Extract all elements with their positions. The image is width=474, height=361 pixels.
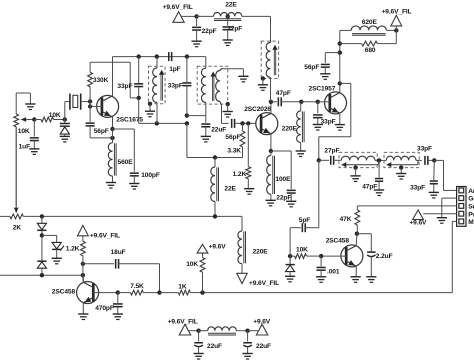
label 22uF bbox=[207, 343, 222, 350]
junction bbox=[432, 158, 436, 162]
tuning arrow bbox=[386, 161, 418, 168]
ground bbox=[223, 40, 233, 46]
svg-text:56pF: 56pF bbox=[225, 134, 240, 141]
svg-text:680: 680 bbox=[365, 47, 376, 54]
capacitor 5pF bbox=[290, 223, 319, 256]
label 47pF bbox=[276, 90, 291, 97]
wire bbox=[16, 93, 30, 114]
resistor 1K bbox=[160, 290, 203, 295]
capacitor 33pF bbox=[430, 160, 438, 192]
ground bbox=[29, 149, 39, 155]
ground bbox=[335, 125, 345, 131]
ground bbox=[25, 104, 35, 110]
label +9.6V_FIL bbox=[168, 319, 198, 326]
junction bbox=[88, 99, 92, 103]
svg-text:22uF: 22uF bbox=[211, 127, 226, 134]
svg-text:220E: 220E bbox=[253, 248, 269, 255]
power +9.6V_FIL inverted bbox=[237, 273, 247, 283]
label 22pF bbox=[276, 195, 291, 202]
svg-text:22uF: 22uF bbox=[207, 343, 222, 350]
capacitor 56pF bbox=[232, 119, 257, 128]
resistor 330K bbox=[88, 62, 93, 101]
transistor Q1 2SC1675 bbox=[97, 95, 119, 117]
svg-text:47K: 47K bbox=[340, 216, 352, 223]
ground bbox=[285, 276, 295, 282]
svg-text:22pF: 22pF bbox=[276, 195, 291, 202]
junction bbox=[81, 262, 85, 266]
power +9.6V_FIL bbox=[391, 15, 402, 30]
resistor 7.5K bbox=[118, 290, 160, 295]
svg-text:33pF: 33pF bbox=[417, 146, 432, 153]
svg-text:+9.6V_FIL: +9.6V_FIL bbox=[90, 232, 120, 239]
svg-text:22E: 22E bbox=[225, 2, 237, 9]
inductor 220E bbox=[297, 102, 304, 151]
label 330K bbox=[93, 77, 109, 84]
svg-text:560E: 560E bbox=[118, 159, 134, 166]
varactor D2 bbox=[286, 256, 295, 276]
node A junction bbox=[32, 117, 36, 121]
junction bbox=[269, 100, 273, 104]
wire secondary top bbox=[223, 69, 244, 77]
wire pin3 squelch bbox=[357, 205, 456, 207]
label 100pF bbox=[141, 172, 160, 179]
wire collector Q1 bbox=[112, 57, 114, 97]
wire bbox=[301, 101, 318, 103]
ground bbox=[244, 189, 254, 195]
label Ant bbox=[468, 188, 474, 195]
svg-text:2SC458: 2SC458 bbox=[326, 237, 350, 244]
ground bbox=[286, 201, 296, 207]
junction bbox=[213, 214, 217, 218]
ground bbox=[437, 218, 447, 224]
svg-text:56pF: 56pF bbox=[304, 64, 319, 71]
svg-text:330K: 330K bbox=[93, 77, 109, 84]
svg-text:47pF: 47pF bbox=[276, 90, 291, 97]
svg-text:18uF: 18uF bbox=[111, 249, 126, 256]
wire bbox=[113, 129, 135, 172]
label 680 bbox=[365, 47, 376, 54]
power +9.6V bbox=[248, 324, 268, 335]
label 5pF bbox=[299, 217, 310, 224]
junction bbox=[338, 81, 342, 85]
svg-text:22E: 22E bbox=[224, 186, 236, 193]
filter coil 1 shield bbox=[339, 152, 377, 167]
transformer T2 secondary bbox=[216, 69, 223, 105]
transistor Q3 2SC1957 bbox=[325, 92, 347, 114]
label 2SC458 bbox=[326, 237, 350, 244]
label 22pF behind cap bbox=[227, 26, 242, 33]
wire emitter Q3 bbox=[339, 113, 341, 125]
capacitor 27pF bbox=[319, 156, 342, 165]
wire bbox=[138, 98, 140, 124]
svg-text:2SC1675: 2SC1675 bbox=[116, 117, 143, 124]
capacitor 2.2uF bbox=[357, 234, 376, 277]
junction bbox=[81, 273, 85, 277]
svg-text:5pF: 5pF bbox=[299, 217, 310, 224]
resistor 1.2K bbox=[246, 123, 251, 188]
svg-text:10K: 10K bbox=[186, 261, 198, 268]
svg-text:Ant: Ant bbox=[468, 188, 474, 195]
shield ground junction bbox=[261, 76, 265, 80]
ground bbox=[266, 200, 276, 206]
crystal X1 bbox=[70, 94, 81, 110]
label 56pF bbox=[304, 64, 319, 71]
label 220E bbox=[253, 248, 269, 255]
svg-text:2SC1957: 2SC1957 bbox=[309, 85, 336, 92]
ground bbox=[351, 168, 361, 182]
svg-text:+9.6V: +9.6V bbox=[253, 319, 271, 326]
label 10K bbox=[18, 128, 30, 135]
diode D3 bbox=[37, 216, 46, 235]
filter coil 2 shield bbox=[384, 152, 419, 167]
svg-text:10K: 10K bbox=[49, 112, 61, 119]
wiper arrow into 2K bbox=[14, 127, 18, 213]
wire bus bbox=[187, 157, 243, 159]
svg-text:10K: 10K bbox=[296, 247, 308, 254]
inductor 620E bbox=[340, 26, 397, 35]
label 1.2K bbox=[233, 171, 247, 178]
capacitor 56pF bbox=[321, 53, 340, 74]
svg-text:2SC2026: 2SC2026 bbox=[244, 106, 271, 113]
capacitor 22pF bbox=[223, 16, 233, 40]
svg-text:+9.6V: +9.6V bbox=[209, 243, 227, 250]
label 10K bbox=[49, 112, 61, 119]
junction bbox=[200, 290, 204, 294]
capacitor 18uF bbox=[83, 259, 160, 293]
wire bus bbox=[139, 122, 187, 124]
label 1pF bbox=[169, 66, 180, 73]
junction bbox=[116, 290, 120, 294]
junction bbox=[194, 14, 198, 18]
label 1uF bbox=[19, 144, 30, 151]
tuning arrow T2 bbox=[211, 72, 216, 102]
label 1K bbox=[178, 283, 187, 290]
ground bbox=[351, 277, 361, 283]
svg-text:33pF: 33pF bbox=[410, 184, 425, 191]
power +9.6V_FIL bbox=[179, 324, 198, 335]
ground bbox=[429, 192, 439, 198]
junction bbox=[316, 100, 320, 104]
resistor 10K bbox=[34, 117, 65, 122]
wire bbox=[375, 159, 386, 161]
svg-text:1.2K: 1.2K bbox=[66, 245, 80, 252]
label 33pF bbox=[321, 118, 336, 125]
svg-text:7.5K: 7.5K bbox=[130, 283, 144, 290]
junction bbox=[137, 96, 141, 100]
ground bbox=[316, 277, 326, 283]
connector J1 bbox=[457, 187, 466, 227]
capacitor 56pF bbox=[86, 122, 113, 138]
wire pin2 ground bbox=[442, 198, 457, 218]
junction bbox=[288, 254, 292, 258]
svg-text:1K: 1K bbox=[178, 283, 187, 290]
wire collector run bbox=[319, 83, 351, 160]
zener D5 bbox=[42, 235, 64, 258]
junction bbox=[377, 158, 381, 162]
filter coil 1 bbox=[341, 156, 375, 160]
junction bbox=[299, 100, 303, 104]
wire base Q4 bbox=[321, 255, 346, 257]
svg-text:+9.6V_FIL: +9.6V_FIL bbox=[168, 319, 198, 326]
label 3.3K bbox=[227, 148, 241, 155]
oscillator coil bbox=[266, 16, 270, 101]
svg-text:1pF: 1pF bbox=[169, 66, 180, 73]
resistor 10K bbox=[200, 253, 205, 293]
resistor 2K pot bbox=[0, 214, 242, 219]
capacitor 22pF bbox=[192, 16, 201, 41]
label 2SC458 bbox=[52, 289, 76, 296]
wire base Q3 bbox=[318, 101, 330, 103]
power +9.6V_FIL bbox=[78, 225, 89, 235]
capacitor 22uF bbox=[201, 116, 210, 137]
label Sq bbox=[468, 204, 474, 211]
tuning arrow bbox=[341, 161, 379, 168]
svg-text:2.2uF: 2.2uF bbox=[376, 253, 393, 260]
ground bbox=[296, 151, 306, 157]
junction bbox=[319, 254, 323, 258]
junction bbox=[110, 136, 114, 140]
svg-text:2K: 2K bbox=[13, 225, 22, 232]
inductor 22E bbox=[197, 13, 271, 21]
svg-text:10K: 10K bbox=[18, 128, 30, 135]
label 47pF bbox=[362, 184, 377, 191]
capacitor .001 bbox=[317, 256, 326, 277]
transistor Q4 2SC458 bbox=[341, 245, 363, 267]
inductor 560E bbox=[108, 143, 116, 183]
resistor 10K bbox=[290, 254, 321, 259]
wire emitter Q2 bbox=[270, 134, 272, 151]
svg-text:33pF: 33pF bbox=[117, 83, 132, 90]
power +9.6V_FIL bbox=[173, 12, 197, 23]
wire bbox=[90, 62, 139, 98]
ground bbox=[374, 190, 384, 196]
oscillator coil shield bbox=[261, 41, 278, 78]
junction bbox=[338, 50, 342, 54]
label 10K bbox=[296, 247, 308, 254]
label Mic bbox=[468, 219, 474, 226]
junction bbox=[185, 121, 189, 125]
svg-text:100E: 100E bbox=[275, 176, 291, 183]
label 22uF bbox=[256, 343, 271, 350]
junction bbox=[40, 233, 44, 237]
wire bbox=[112, 129, 114, 143]
svg-text:Sq: Sq bbox=[468, 204, 474, 211]
ground bbox=[258, 79, 268, 91]
svg-text:3.3K: 3.3K bbox=[227, 148, 241, 155]
wire base Q5 bbox=[93, 292, 118, 294]
capacitor 47pF bbox=[271, 97, 301, 106]
label 47K bbox=[340, 216, 352, 223]
svg-text:+9.6V_FIL: +9.6V_FIL bbox=[249, 280, 279, 287]
ground bbox=[145, 104, 155, 117]
svg-text:470pF: 470pF bbox=[95, 305, 114, 312]
potentiometer 10K bbox=[14, 114, 35, 127]
inductor 22E bbox=[211, 158, 219, 217]
tuning arrow bbox=[272, 45, 277, 75]
junction bbox=[88, 104, 92, 108]
ground bbox=[366, 277, 376, 283]
filter coil 2 bbox=[386, 156, 416, 160]
capacitor 33pF bbox=[182, 57, 191, 116]
label 2SC1957 bbox=[309, 85, 336, 92]
resistor 680 bbox=[340, 30, 397, 46]
wire bbox=[89, 102, 91, 122]
wire collector Q5 bbox=[82, 275, 84, 282]
label 220E bbox=[282, 126, 298, 133]
wire bbox=[271, 151, 291, 189]
label +9.6V bbox=[253, 319, 271, 326]
junction bbox=[245, 329, 249, 333]
label 7.5K bbox=[130, 283, 144, 290]
wire bbox=[186, 123, 188, 157]
capacitor 33pF bbox=[416, 156, 434, 165]
shield ground junction bbox=[353, 165, 357, 169]
wire top rail bbox=[113, 56, 206, 58]
svg-text:56pF: 56pF bbox=[94, 128, 109, 135]
label 33pF bbox=[417, 146, 432, 153]
label 10K bbox=[186, 261, 198, 268]
wire pin4 power bbox=[423, 213, 456, 215]
svg-text:1uF: 1uF bbox=[19, 144, 30, 151]
wire bbox=[318, 160, 320, 227]
label +9.6V_FIL bbox=[90, 232, 120, 239]
label 470pF bbox=[95, 305, 114, 312]
capacitor 22uF bbox=[194, 331, 203, 354]
junction bbox=[269, 149, 273, 153]
junction bbox=[317, 158, 321, 162]
inductor L filter bbox=[199, 327, 248, 335]
junction bbox=[157, 290, 161, 294]
svg-text:+9.6V_FIL: +9.6V_FIL bbox=[163, 4, 193, 11]
wire bbox=[82, 264, 84, 282]
label 22uF bbox=[211, 127, 226, 134]
junction bbox=[213, 155, 217, 159]
wire pin5 mic bbox=[203, 221, 457, 292]
svg-text:.001: .001 bbox=[327, 268, 340, 275]
junction bbox=[196, 329, 200, 333]
transformer T1 winding bbox=[153, 57, 157, 124]
wire collector Q2 bbox=[270, 102, 272, 114]
svg-text:27pF: 27pF bbox=[324, 148, 339, 155]
junction bbox=[40, 214, 44, 218]
label 22E bbox=[225, 2, 237, 9]
label +9.6V bbox=[409, 220, 427, 227]
ground bbox=[194, 354, 204, 360]
shield ground junction bbox=[399, 165, 403, 169]
svg-text:+9.6V: +9.6V bbox=[409, 220, 427, 227]
capacitor 22pF bbox=[287, 190, 296, 201]
ground bbox=[60, 136, 70, 142]
svg-text:2SC458: 2SC458 bbox=[52, 289, 76, 296]
svg-text:22pF: 22pF bbox=[202, 28, 217, 35]
junction bbox=[137, 54, 141, 58]
capacitor 1uF bbox=[30, 120, 39, 149]
wire emitter Q1 bbox=[112, 117, 114, 129]
junction bbox=[355, 232, 359, 236]
ground bbox=[201, 136, 211, 142]
junction bbox=[155, 121, 159, 125]
junction bbox=[185, 54, 189, 58]
ground bbox=[238, 76, 248, 82]
ground bbox=[313, 125, 323, 131]
svg-text:+9.6V_FIL: +9.6V_FIL bbox=[382, 9, 412, 16]
label 18uF bbox=[111, 249, 126, 256]
capacitor 100pF bbox=[130, 173, 139, 183]
wire bbox=[339, 30, 341, 83]
label Gnd bbox=[468, 196, 474, 203]
label 620E bbox=[362, 19, 378, 26]
label 27pF bbox=[324, 148, 339, 155]
label 2K bbox=[13, 225, 22, 232]
label 1.2K bbox=[66, 245, 80, 252]
wire collector Q3 bbox=[339, 83, 341, 92]
junction bbox=[63, 117, 67, 121]
capacitor 1pF bbox=[169, 52, 172, 61]
junction bbox=[246, 121, 250, 125]
junction bbox=[394, 28, 398, 32]
transistor Q2 2SC2026 bbox=[256, 113, 278, 135]
ground bbox=[223, 104, 233, 117]
power +9.6V bbox=[197, 244, 208, 253]
transformer T1 shield bbox=[149, 66, 166, 104]
label 560E bbox=[118, 159, 134, 166]
svg-text:Gnd: Gnd bbox=[468, 196, 474, 203]
label 22E bbox=[224, 186, 236, 193]
tuning arrow T1 bbox=[159, 70, 164, 101]
ground bbox=[320, 74, 330, 80]
power +9.6V bbox=[413, 210, 424, 220]
label .001 bbox=[327, 268, 340, 275]
ground bbox=[78, 314, 88, 320]
wire to connector bbox=[434, 160, 456, 190]
label 2.2uF bbox=[376, 253, 393, 260]
transistor Q5 2SC458 bbox=[77, 282, 99, 304]
label 56pF bbox=[94, 128, 109, 135]
varactor D1 bbox=[60, 120, 70, 137]
svg-text:100pF: 100pF bbox=[141, 172, 160, 179]
junction bbox=[110, 127, 114, 131]
label 2SC1675 bbox=[116, 117, 143, 124]
svg-text:22uF: 22uF bbox=[256, 343, 271, 350]
junction bbox=[155, 54, 159, 58]
wire base Q1 bbox=[90, 105, 102, 107]
label +9.6V_FIL bbox=[163, 4, 193, 11]
resistor 3.3K bbox=[240, 123, 245, 157]
inductor 100E bbox=[267, 151, 275, 200]
ground bbox=[106, 183, 116, 189]
svg-text:1.2K: 1.2K bbox=[233, 171, 247, 178]
junction bbox=[338, 41, 342, 45]
svg-text:Mic: Mic bbox=[468, 219, 474, 226]
label +9.6V_FIL bbox=[249, 280, 279, 287]
label +9.6V bbox=[209, 243, 227, 250]
label Pwr bbox=[468, 211, 474, 218]
wire bbox=[81, 101, 90, 103]
wire collector Q4 bbox=[355, 234, 358, 246]
ground bbox=[113, 314, 123, 320]
shield ground junction bbox=[148, 102, 152, 106]
label 33pF bbox=[410, 184, 425, 191]
junction bbox=[240, 121, 244, 125]
diode D4 bbox=[37, 235, 46, 275]
junction bbox=[185, 113, 189, 117]
wire bus bbox=[0, 274, 83, 276]
label 100E bbox=[275, 176, 291, 183]
label 2SC2026 bbox=[244, 106, 271, 113]
wire bbox=[187, 115, 206, 117]
label 56pF bbox=[225, 134, 240, 141]
svg-text:220E: 220E bbox=[282, 126, 298, 133]
